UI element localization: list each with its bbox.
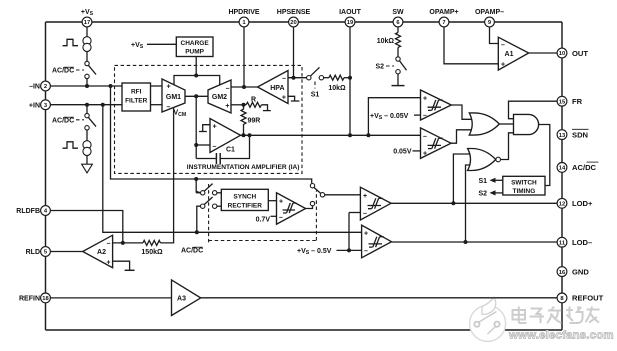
svg-text:19: 19	[347, 20, 354, 26]
pin 6 SW	[392, 9, 404, 27]
svg-text:HPSENSE: HPSENSE	[277, 9, 311, 16]
transconductance amp GM2	[208, 80, 231, 113]
wire A1 output to OUT pin10	[529, 52, 558, 54]
pin 14 AC/DC (overline on DC)	[557, 162, 598, 172]
wire OR output to AND middle input	[499, 123, 513, 125]
charge pump box	[176, 37, 213, 57]
node VS-0.5V ref	[347, 248, 351, 252]
IA dashed box	[115, 65, 303, 173]
wire +VS to charge pump	[147, 43, 176, 45]
wire +IN	[50, 104, 122, 106]
wire RLDFB pin4 to A2 - node	[50, 211, 122, 243]
SPDT switch (DC/AC select)	[310, 184, 324, 206]
wire label to comp1 - input	[414, 114, 421, 116]
svg-text:14: 14	[559, 166, 566, 172]
node +IN sense / synch switch	[195, 230, 199, 234]
pin 5 RLD	[26, 247, 51, 257]
wire FR pin15 to AND top input	[509, 101, 558, 119]
RFI filter box	[122, 83, 151, 111]
wire -IN	[50, 85, 122, 87]
svg-text:99R: 99R	[248, 118, 261, 125]
svg-text:+: +	[225, 103, 229, 110]
AND gate U-AND (3 input)	[514, 114, 539, 134]
svg-text:+VS – 0.05V: +VS – 0.05V	[370, 113, 409, 121]
S1 control arrow	[478, 178, 502, 185]
svg-text:LOD–: LOD–	[572, 238, 592, 247]
wire C1 feedback lower	[196, 158, 216, 160]
pulse symbol (upper)	[63, 39, 79, 45]
pin 20 HPSENSE	[277, 9, 311, 27]
svg-text:–: –	[279, 214, 283, 221]
pin 3 +IN	[29, 100, 50, 110]
wire A3 output to REFOUT pin8	[201, 297, 558, 299]
current source I2 (bottom)	[83, 141, 91, 156]
svg-text:+: +	[282, 94, 286, 101]
svg-text:SDN: SDN	[572, 130, 588, 139]
op-amp A3	[172, 280, 201, 316]
VCM rail wire (from -IN)	[111, 86, 312, 183]
OR gate U-OR	[469, 113, 499, 135]
svg-text:OUT: OUT	[572, 49, 588, 58]
ground (S2)	[392, 74, 405, 86]
switch AC/DC (upper, on -IN bias)	[85, 61, 96, 78]
wire comp1 + input tap from IA output	[368, 98, 420, 136]
node +IN/DC sense	[101, 103, 105, 107]
chip outer border	[46, 22, 563, 330]
svg-text:0.05V: 0.05V	[393, 148, 412, 155]
svg-text:A2: A2	[97, 249, 106, 256]
svg-text:0.7V: 0.7V	[256, 217, 271, 224]
node C1 / IA out	[248, 133, 252, 137]
op-amp A1	[498, 37, 528, 70]
node charge pump / GM tops	[194, 74, 198, 78]
wire LOD+ (comp3 out to pin12)	[391, 202, 557, 204]
svg-text:+: +	[213, 124, 217, 131]
node NOR / LOD-	[464, 240, 468, 244]
svg-text:10kΩ: 10kΩ	[328, 85, 346, 92]
label AC/DC (upper)	[52, 67, 84, 74]
svg-text:+: +	[364, 230, 368, 237]
svg-text:PUMP: PUMP	[185, 49, 204, 56]
transconductance amp GM1	[162, 79, 185, 112]
label AC/DC (mode control)	[181, 247, 203, 254]
wire +Vs pin17 down	[86, 27, 88, 37]
node +IN/bias	[85, 103, 89, 107]
watermark text dian-zi-fa-shao-you (vector strokes)	[513, 307, 600, 324]
svg-text:HPDRIVE: HPDRIVE	[228, 9, 259, 16]
wire GM1 out to GM2	[185, 95, 208, 97]
svg-text:–: –	[282, 76, 286, 83]
svg-text:C1: C1	[226, 147, 235, 154]
svg-text:+VS – 0.5V: +VS – 0.5V	[297, 248, 332, 256]
dashed AC/DC control (synch switches)	[208, 184, 210, 243]
node 10k / IAOUT	[348, 76, 352, 80]
comparator C-0.7V	[277, 193, 306, 224]
svg-text:–IN: –IN	[29, 84, 40, 91]
pin 13 SDN (overline)	[557, 129, 588, 139]
ground (A2 + input)	[113, 261, 135, 270]
wire NOR bottom input from LOD- line	[466, 165, 471, 242]
label AC/DC (lower-left)	[52, 117, 84, 124]
dian	[513, 310, 526, 320]
NOR gate U-NOR	[468, 149, 501, 171]
step symbol after R	[262, 105, 271, 111]
step symbol at integrator + input	[199, 125, 210, 132]
pin 15 FR	[557, 96, 583, 106]
svg-text:RLDFB: RLDFB	[16, 208, 40, 215]
wire RFI to GM1 (+IN path)	[151, 104, 163, 106]
pin 18 REFIN	[19, 293, 50, 303]
pin 10 OUT	[557, 48, 588, 58]
wire A2 - input	[113, 242, 143, 244]
pin 1 HPDRIVE	[228, 9, 259, 27]
dashed AC/DC control horizontal	[209, 240, 317, 242]
svg-text:IAOUT: IAOUT	[339, 9, 362, 16]
pin 16 GND	[557, 267, 589, 277]
svg-text:–: –	[363, 210, 367, 217]
wire OPAMP- pin9 to A1	[490, 27, 499, 44]
svg-text:SWITCH: SWITCH	[511, 180, 537, 187]
wire GM1/GM2 top interconnect	[174, 76, 220, 86]
comparator C-AC1 (+VS-0.05V)	[421, 90, 452, 120]
resistor 10k (SW pin path)	[377, 27, 401, 48]
node HPDRIVE	[242, 85, 246, 89]
pin 12 LOD+	[557, 198, 593, 208]
step symbol at HPA + input	[288, 96, 299, 101]
wire C1 to output node	[220, 135, 249, 158]
wire GM2 + input to R network	[231, 104, 246, 106]
watermark elecfans logo	[470, 297, 506, 341]
comparator C-LOD-	[362, 225, 392, 258]
svg-text:OPAMP–: OPAMP–	[475, 9, 504, 16]
op-amp (integrator with C1)	[210, 119, 241, 153]
wire HPA - input to S1	[288, 77, 307, 79]
svg-text:+IN: +IN	[29, 102, 40, 109]
wire HPSENSE pin20 down	[293, 27, 295, 78]
wire GM2 - input to HPA output, HPDRIVE node	[231, 86, 258, 88]
svg-text:SYNCH: SYNCH	[233, 193, 256, 200]
svg-text:INSTRUMENTATION AMPLIFIER (IA): INSTRUMENTATION AMPLIFIER (IA)	[187, 164, 300, 171]
synch switch lower	[197, 197, 222, 232]
svg-text:www.elecfans.com: www.elecfans.com	[508, 330, 614, 342]
resistor 150k	[141, 240, 163, 255]
wire integrator inverting input	[196, 144, 210, 146]
wire +IN DC sense path	[103, 105, 362, 233]
wire rail to upper synch switch	[196, 179, 200, 193]
node A2 - / RLDFB	[121, 241, 125, 245]
svg-text:–: –	[364, 248, 368, 255]
pin 17 +Vs	[81, 9, 94, 27]
svg-text:S2: S2	[375, 64, 384, 71]
svg-text:+: +	[167, 84, 171, 91]
wire LOD- (comp4 out to pin11)	[392, 241, 558, 243]
svg-text:RLD: RLD	[26, 249, 40, 256]
wire comp4 - input	[337, 249, 362, 251]
wire SPDT to comp3 + input	[325, 194, 361, 196]
svg-text:AC/DC: AC/DC	[181, 248, 203, 255]
pin 8 REFOUT	[557, 293, 603, 303]
zi	[531, 308, 543, 310]
svg-text:HPA: HPA	[270, 85, 284, 92]
shao	[569, 307, 571, 319]
wire IAOUT pin19 down	[349, 27, 351, 135]
wire reference vertical	[348, 213, 350, 251]
svg-text:FR: FR	[572, 97, 583, 106]
svg-text:FILTER: FILTER	[125, 98, 148, 105]
svg-text:AC/DC: AC/DC	[572, 163, 597, 172]
svg-text:REFIN: REFIN	[19, 296, 40, 303]
node HPSENSE / HPA -	[292, 76, 296, 80]
svg-text:REFOUT: REFOUT	[572, 294, 604, 303]
svg-text:GND: GND	[572, 267, 589, 276]
comparator C-AC2 (0.05V)	[421, 128, 452, 158]
svg-text:+: +	[106, 260, 110, 267]
switch timing box	[503, 176, 545, 195]
svg-text:18: 18	[42, 296, 49, 302]
wire comp2 out to OR gate	[451, 130, 473, 143]
svg-text:TIMING: TIMING	[513, 188, 536, 195]
svg-text:17: 17	[84, 20, 90, 26]
wire NOR top input from LOD+ line	[453, 154, 470, 203]
wire charge pump to GM tops	[195, 57, 197, 76]
svg-text:2: 2	[44, 84, 47, 90]
synch rectifier box	[221, 189, 268, 210]
svg-text:15: 15	[559, 99, 566, 105]
svg-text:+: +	[363, 193, 367, 200]
pin 19 IAOUT	[339, 9, 362, 27]
node integrator - input	[194, 143, 198, 147]
node IAOUT / IA out wire	[348, 133, 352, 137]
pin 7 OPAMP+	[429, 9, 458, 27]
svg-text:+VS: +VS	[131, 42, 144, 50]
S2 control arrow	[478, 190, 502, 197]
svg-text:A3: A3	[177, 296, 186, 303]
svg-text:–: –	[501, 42, 505, 49]
wire HPDRIVE pin1 down	[243, 27, 245, 87]
op-amp A2 (points left)	[83, 235, 113, 268]
pin 4 RLDFB	[16, 206, 50, 216]
wire 150k to VCM	[160, 108, 173, 243]
wire OPAMP+ pin7 to A1	[444, 27, 498, 64]
wire A3 output to REFOUT pin8 (over watermark)	[201, 297, 558, 299]
svg-text:CHARGE: CHARGE	[181, 40, 210, 47]
resistor 99R	[241, 105, 260, 136]
svg-text:AC/DC: AC/DC	[52, 68, 74, 75]
dashed AC/DC control to SPDT switch	[315, 191, 317, 241]
svg-text:GM1: GM1	[166, 94, 181, 101]
svg-text:RFI: RFI	[131, 89, 142, 96]
node -IN/bias	[85, 84, 89, 88]
svg-text:LOD+: LOD+	[572, 199, 593, 208]
svg-text:12: 12	[559, 202, 565, 208]
pin 9 OPAMP-	[475, 9, 504, 27]
comparator C-LOD+	[360, 187, 391, 220]
svg-text:–: –	[226, 86, 230, 93]
pin 11 LOD-	[557, 237, 592, 247]
svg-text:–: –	[107, 240, 111, 247]
wire to VSS arrow	[86, 156, 88, 165]
wire NOR output to AND bottom input	[501, 133, 514, 160]
fa	[548, 310, 562, 312]
wire current source to switch	[86, 52, 88, 62]
svg-text:AC/DC: AC/DC	[52, 118, 74, 125]
wire switch to -IN node	[86, 79, 88, 86]
svg-text:A1: A1	[505, 51, 514, 58]
svg-text:S2: S2	[478, 191, 487, 198]
current source I1 (top)	[83, 37, 91, 52]
svg-text:+: +	[501, 61, 505, 68]
svg-text:S1: S1	[311, 92, 320, 99]
node -IN/VCM rail	[109, 84, 113, 88]
synch switch upper	[196, 184, 221, 195]
svg-text:OPAMP+: OPAMP+	[429, 9, 458, 16]
node NOR / LOD+	[451, 201, 455, 205]
wire synch rectifier to 0.7V comparator	[268, 200, 276, 202]
wire 0.7V comp output to SPDT throw	[306, 206, 313, 209]
pulse symbol (lower)	[63, 142, 79, 148]
svg-text:11: 11	[559, 240, 566, 246]
comparator HPA (points left)	[258, 71, 289, 104]
svg-text:SW: SW	[392, 9, 404, 16]
svg-text:10kΩ: 10kΩ	[377, 38, 395, 45]
svg-text:150kΩ: 150kΩ	[141, 249, 163, 256]
switch S2	[375, 47, 406, 74]
wire label to comp2 + input	[413, 150, 421, 152]
svg-text:+: +	[423, 96, 427, 103]
wire REFIN pin18 to A3	[50, 297, 171, 299]
pin 2 -IN	[29, 81, 50, 91]
svg-text:+: +	[423, 151, 427, 158]
wire RFI to GM1 (-IN path)	[151, 85, 163, 87]
resistor 10k (S1 path)	[324, 75, 350, 92]
wire gm node down to C1 amp inverting input / C1 loop	[195, 96, 197, 158]
wire RLD pin5 to A2 output	[50, 251, 82, 253]
svg-text:–: –	[423, 113, 427, 120]
node 99R / IA out	[242, 133, 246, 137]
wire comp3 - / comp4 - reference	[349, 212, 360, 214]
capacitor C1	[216, 147, 235, 165]
svg-text:16: 16	[559, 270, 566, 276]
svg-text:RECTIFIER: RECTIFIER	[228, 202, 263, 209]
svg-text:–: –	[213, 144, 217, 151]
wire comp1 out to OR gate	[451, 105, 472, 119]
svg-text:13: 13	[559, 133, 566, 139]
svg-text:–: –	[423, 133, 427, 140]
switch AC/DC (lower, on +IN bias)	[85, 105, 96, 141]
VSS arrow (open triangle down)	[82, 164, 93, 173]
wire 0.7V label to - input	[271, 215, 277, 217]
node comp1 + tap	[366, 133, 370, 137]
svg-text:GM2: GM2	[212, 94, 227, 101]
svg-text:–: –	[167, 104, 171, 111]
switch S1	[307, 67, 324, 98]
svg-text:+: +	[279, 199, 283, 206]
node VCM rail tap	[194, 177, 198, 181]
resistor R	[246, 97, 262, 108]
wire IA output (integrator output to comparator)	[241, 134, 421, 136]
svg-text:+VS: +VS	[81, 9, 94, 17]
svg-text:10: 10	[559, 51, 565, 57]
node R / 99R	[242, 103, 246, 107]
svg-text:S1: S1	[478, 178, 487, 185]
node GM1 out / GM2	[194, 94, 198, 98]
svg-text:7: 7	[442, 20, 445, 26]
wire AND output to switch timing	[539, 125, 550, 186]
you	[587, 309, 600, 311]
svg-text:20: 20	[290, 20, 296, 26]
